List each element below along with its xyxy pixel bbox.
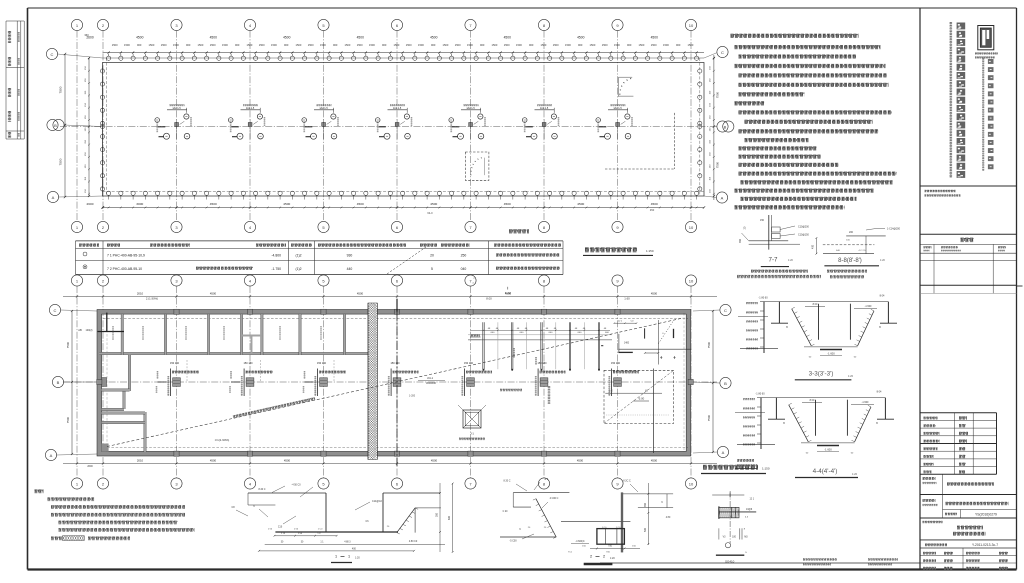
svg-text:-5.00: -5.00 [638, 397, 645, 401]
svg-text:8 20 C: 8 20 C [258, 488, 265, 491]
svg-text:2: 2 [603, 555, 605, 559]
svg-text:4500: 4500 [651, 459, 658, 463]
svg-text:900: 900 [627, 43, 632, 47]
svg-text:1A2 1-5: 1A2 1-5 [540, 107, 549, 110]
svg-text:900: 900 [431, 43, 436, 47]
detail column elevation SG410 [712, 491, 756, 563]
svg-text:1500: 1500 [173, 43, 179, 47]
svg-text:4500: 4500 [577, 202, 584, 206]
svg-text:1500: 1500 [149, 43, 155, 47]
svg-text:C 20: C 20 [503, 511, 509, 513]
svg-text:1A2 1-5: 1A2 1-5 [319, 107, 328, 110]
svg-text:2010: 2010 [137, 292, 144, 296]
svg-text:B: B [54, 123, 57, 128]
svg-text:B: B [57, 380, 60, 385]
svg-text:1500: 1500 [345, 43, 351, 47]
svg-text:1500: 1500 [492, 43, 498, 47]
svg-text:1:150: 1:150 [646, 249, 654, 253]
svg-text:1:20: 1:20 [852, 472, 858, 476]
svg-text:1500: 1500 [247, 43, 253, 47]
svg-text:1A2 1-5: 1A2 1-5 [172, 107, 181, 110]
upper plan pile circles along left edge [100, 66, 702, 191]
lower plan bottom dimension row [63, 459, 717, 468]
svg-text:4 80 C0: 4 80 C0 [409, 540, 418, 543]
svg-text:3-3(3'-3'): 3-3(3'-3') [809, 371, 834, 378]
svg-text:4500: 4500 [651, 36, 659, 40]
pile table diagonal strike line [387, 247, 426, 274]
svg-text:4500: 4500 [284, 459, 291, 463]
lower plan grid column circles bottom row [71, 478, 696, 489]
lower plan row circles left [45, 304, 97, 460]
svg-text:7 1 PHC-400-AB-95-10,9: 7 1 PHC-400-AB-95-10,9 [107, 254, 145, 258]
svg-text:900: 900 [480, 43, 485, 47]
upper plan vertical grid axis lines [77, 31, 691, 222]
svg-text:-1 80 60: -1 80 60 [758, 296, 768, 299]
svg-text:12 1: 12 1 [750, 499, 755, 501]
lower plan row circles right [693, 304, 731, 457]
svg-text:4-4(4'-4'): 4-4(4'-4') [813, 468, 838, 475]
detail title 3-3 [795, 371, 854, 380]
svg-text:B: B [724, 124, 727, 129]
detail section 2-2 [500, 478, 673, 564]
pile cap cluster at axis 3 [155, 105, 191, 139]
svg-text:-5 C00: -5 C00 [509, 540, 517, 543]
lower plan vertical grid axis lines [77, 286, 691, 478]
pile cap cluster at axis 7 [449, 105, 485, 139]
upper plan top dimension text row small [112, 43, 694, 47]
lower plan drainage slope diagonal line [107, 296, 683, 446]
title block review (hui qian) table [920, 239, 1017, 294]
svg-text:-4 600(C: -4 600(C [575, 540, 585, 543]
svg-text:4500: 4500 [357, 292, 364, 296]
svg-text:900: 900 [676, 43, 681, 47]
lower plan interior pile dashed lines [103, 313, 688, 452]
upper plan right dimension chain [710, 55, 720, 200]
svg-text:900: 900 [529, 43, 534, 47]
svg-text:B: B [724, 381, 727, 386]
title block project name row [920, 495, 1017, 519]
svg-text:-4 50 C0: -4 50 C0 [291, 484, 301, 487]
svg-text:4500: 4500 [651, 202, 658, 206]
svg-text:900: 900 [382, 43, 387, 47]
svg-text:1500: 1500 [320, 43, 326, 47]
svg-text:8 2C C: 8 2C C [623, 480, 631, 483]
svg-text:1500: 1500 [112, 43, 118, 47]
svg-text:150: 150 [760, 219, 765, 222]
svg-text:2010: 2010 [137, 459, 144, 463]
svg-text:7-7: 7-7 [769, 257, 779, 264]
lower plan right dimension chain [707, 310, 714, 453]
svg-text:1500: 1500 [639, 43, 645, 47]
svg-text:400: 400 [352, 548, 357, 551]
title block number and date rows [920, 543, 1017, 570]
svg-text:-1 80 60: -1 80 60 [755, 392, 765, 395]
svg-text:JCL1: JCL1 [427, 376, 434, 380]
svg-text:7500: 7500 [707, 341, 711, 348]
svg-text:150 150: 150 150 [390, 362, 400, 365]
lower plan middle horizontal axis [63, 381, 717, 383]
upper plan grid column circles top row [71, 19, 696, 30]
svg-text:900: 900 [284, 43, 289, 47]
title block secondary company column [983, 58, 993, 171]
svg-text:1-200: 1-200 [409, 395, 416, 398]
svg-text:1500: 1500 [651, 43, 657, 47]
svg-text:250: 250 [461, 254, 467, 258]
svg-text:1 X: 1 X [317, 533, 321, 535]
svg-text:-1 600: -1 600 [827, 352, 835, 356]
svg-text:440: 440 [347, 267, 353, 271]
svg-text:20: 20 [430, 254, 434, 258]
detail title 4-4 [795, 468, 858, 478]
svg-text:100(2): 100(2) [86, 329, 93, 332]
pile schedule table [76, 241, 564, 275]
svg-text:C: C [54, 308, 57, 313]
upper plan pile circles along right edge [698, 69, 702, 191]
svg-text:7500: 7500 [59, 158, 63, 165]
upper plan dashed region boundary right end [605, 113, 675, 169]
svg-text:4500: 4500 [283, 36, 291, 40]
svg-text:7500: 7500 [66, 416, 70, 423]
svg-text:C10@200: C10@200 [798, 226, 809, 229]
svg-text:040: 040 [461, 267, 467, 271]
title block company name vertical text (Shanghai Xiandai Architectural Design Group) [951, 22, 965, 178]
svg-text:1500: 1500 [455, 43, 461, 47]
svg-text:8 00: 8 00 [813, 303, 818, 306]
svg-text:4500: 4500 [357, 202, 364, 206]
svg-text:C10@150: C10@150 [798, 234, 809, 237]
lower plan elevator pit dashed outline [604, 369, 674, 454]
svg-text:4500: 4500 [136, 36, 144, 40]
svg-text:8-8(8'-8'): 8-8(8'-8') [838, 258, 862, 264]
detail section 8-8 [812, 228, 901, 277]
svg-text:J-1: J-1 [470, 432, 474, 436]
svg-text:7500: 7500 [707, 414, 711, 421]
svg-text:4500: 4500 [210, 459, 217, 463]
svg-text:1500: 1500 [369, 43, 375, 47]
svg-text:C: C [721, 50, 724, 55]
lower plan right half ceiling beams group [468, 322, 612, 371]
upper plan pile circles along top edge [107, 54, 699, 61]
svg-text:A: A [50, 453, 53, 458]
svg-text:C14@C2: C14@C2 [372, 500, 383, 503]
upper plan row grid circles left [46, 48, 64, 202]
svg-text:1500: 1500 [296, 43, 302, 47]
svg-text:1: 1 [335, 555, 337, 559]
svg-text:10: 10 [689, 481, 694, 486]
svg-text:300x600: 300x600 [426, 381, 437, 385]
svg-text:1500: 1500 [308, 43, 314, 47]
svg-text:1 C0: 1 C0 [616, 527, 621, 529]
title block certificate line [920, 186, 1017, 234]
svg-text:3000: 3000 [136, 202, 143, 206]
upper plan top dimension line with ticks [103, 52, 705, 54]
svg-text:2600: 2600 [87, 202, 94, 206]
svg-text:YS(2016)0279: YS(2016)0279 [975, 513, 997, 517]
svg-text:i=1(1.90%): i=1(1.90%) [215, 438, 230, 442]
upper plan left dimension chain [59, 53, 91, 198]
svg-text:1500: 1500 [504, 43, 510, 47]
svg-text:Y-2011-0213-3c-7: Y-2011-0213-3c-7 [972, 543, 998, 547]
svg-text:1500: 1500 [406, 43, 412, 47]
title block frame [919, 8, 921, 570]
svg-text:4500: 4500 [504, 202, 511, 206]
svg-text:4 C 2.5: 4 C 2.5 [858, 250, 866, 252]
sheet fold mark tick [1017, 285, 1023, 287]
svg-text:7500: 7500 [59, 86, 63, 93]
svg-text:4500: 4500 [431, 459, 438, 463]
svg-text:4 C00 C: 4 C00 C [550, 497, 559, 500]
pile cap cluster at axis 4 [228, 105, 264, 139]
lower plan mid-axis beam dimension labels [157, 360, 640, 396]
svg-text:8 04: 8 04 [880, 295, 885, 298]
svg-text:1500: 1500 [553, 43, 559, 47]
svg-text:4500: 4500 [577, 459, 584, 463]
upper plan pile circles along bottom edge [107, 191, 699, 195]
svg-text:1500: 1500 [259, 43, 265, 47]
svg-text:350: 350 [436, 512, 439, 517]
lower plan sump pit square with cross [458, 405, 486, 439]
upper plan bottom dimension line [87, 196, 706, 215]
svg-text:C: C [51, 52, 54, 57]
detail section 7-7 [737, 215, 821, 277]
svg-text:1:20: 1:20 [355, 557, 360, 560]
svg-text:7500: 7500 [716, 91, 720, 98]
detail section 1-1 [231, 483, 453, 563]
svg-text:1 C0: 1 C0 [602, 527, 607, 529]
svg-text:450: 450 [650, 208, 655, 212]
svg-text:-4 5: -4 5 [544, 478, 549, 481]
title block drawing title row [920, 521, 1017, 540]
svg-text:400: 400 [812, 244, 815, 249]
svg-text:(1)2: (1)2 [295, 254, 301, 258]
svg-text:1500: 1500 [590, 43, 596, 47]
svg-text:1: 1 [348, 555, 350, 559]
svg-text:2: 2 [590, 555, 592, 559]
upper plan dashed zone box with hook symbol [465, 152, 489, 180]
lower plan drawing title (basement slab plan) [701, 466, 770, 474]
lower plan ramp beam and dimension marks near axis 9 [614, 320, 692, 365]
svg-text:1500: 1500 [443, 43, 449, 47]
svg-text:4500: 4500 [504, 36, 512, 40]
svg-text:1:150: 1:150 [762, 467, 770, 471]
svg-text:AB: AB [78, 328, 82, 332]
svg-text:700: 700 [608, 545, 613, 548]
svg-text:8.00: 8.00 [486, 296, 492, 300]
svg-text:4500: 4500 [210, 202, 217, 206]
left edge signature strip table [6, 21, 24, 139]
svg-text:350: 350 [644, 502, 647, 507]
svg-text:2600: 2600 [87, 465, 93, 468]
footer separator line and stamps [600, 559, 920, 565]
svg-text:1-C14@200: 1-C14@200 [887, 228, 901, 231]
svg-text:10: 10 [689, 225, 694, 230]
svg-text:C10: C10 [278, 527, 283, 529]
svg-text:(1)2: (1)2 [295, 267, 301, 271]
svg-text:350: 350 [739, 238, 742, 243]
note text below pile table [472, 278, 511, 295]
svg-text:150 150: 150 150 [611, 362, 621, 365]
svg-text:4500: 4500 [430, 36, 438, 40]
svg-text:900: 900 [333, 43, 338, 47]
svg-text:900: 900 [578, 43, 583, 47]
svg-text:A: A [52, 195, 55, 200]
lower plan left column rooms [102, 355, 147, 452]
svg-text:1500: 1500 [222, 43, 228, 47]
svg-text:1500: 1500 [124, 43, 130, 47]
lower plan grid column circles top row [71, 275, 696, 286]
svg-text:4500: 4500 [577, 36, 585, 40]
svg-text:7500: 7500 [716, 161, 720, 168]
svg-text:150 150: 150 150 [317, 362, 327, 365]
svg-text:4500: 4500 [283, 202, 290, 206]
svg-text:1500: 1500 [602, 43, 608, 47]
svg-text:1500: 1500 [541, 43, 547, 47]
svg-text:4500: 4500 [651, 292, 658, 296]
detail section 3-3 pit section [738, 295, 897, 359]
svg-text:150 150: 150 150 [243, 362, 253, 365]
title block client row [920, 474, 1017, 494]
upper plan corner radius detail symbol [618, 77, 634, 97]
svg-text:8 20 C: 8 20 C [503, 480, 510, 483]
svg-text:4500: 4500 [210, 292, 217, 296]
svg-text:7 2 PHC-400-AB-95-10: 7 2 PHC-400-AB-95-10 [107, 267, 142, 271]
small note left of 4-4 title [735, 460, 757, 469]
lower plan post-cast strip hatched band [368, 298, 377, 463]
pile schedule table title [509, 230, 529, 231]
lower plan columns at grid intersections [97, 309, 694, 456]
svg-text:4500: 4500 [357, 36, 365, 40]
svg-text:1:20: 1:20 [788, 259, 793, 262]
svg-text:1500: 1500 [210, 43, 216, 47]
svg-text:-1 600: -1 600 [824, 448, 832, 452]
svg-text:8 00: 8 00 [810, 399, 815, 402]
svg-text:1500: 1500 [663, 43, 669, 47]
svg-text:360: 360 [84, 33, 89, 37]
svg-text:500: 500 [644, 527, 647, 532]
svg-text:1A2 1-5: 1A2 1-5 [393, 107, 402, 110]
svg-text:-4.800: -4.800 [271, 254, 281, 258]
svg-text:150 150: 150 150 [464, 362, 474, 365]
svg-text:1A2 1-5: 1A2 1-5 [246, 107, 255, 110]
svg-text:10: 10 [689, 23, 694, 28]
svg-text:8 04: 8 04 [877, 391, 882, 394]
svg-text:900: 900 [235, 43, 240, 47]
svg-text:-1 600: -1 600 [862, 401, 869, 404]
upper plan horizontal axis lines [58, 53, 717, 198]
svg-text:1500: 1500 [271, 43, 277, 47]
pile cap cluster at axis 6 [375, 105, 411, 139]
svg-text:1:20: 1:20 [848, 374, 854, 378]
general notes text block [731, 35, 897, 208]
svg-text:1500: 1500 [516, 43, 522, 47]
detail section 4-4 pit section [735, 391, 894, 455]
svg-text:C: C [724, 308, 727, 313]
svg-text:5: 5 [431, 267, 433, 271]
svg-text:A: A [721, 195, 724, 200]
svg-text:7500: 7500 [66, 341, 70, 348]
pile cap cluster at axis 8 [522, 105, 558, 139]
svg-text:800: 800 [448, 515, 451, 520]
upper plan grid column circles bottom row [71, 221, 696, 232]
svg-text:-1.750: -1.750 [271, 267, 281, 271]
svg-text:1400: 1400 [624, 342, 630, 344]
svg-text:1A2 1-5: 1A2 1-5 [613, 107, 622, 110]
svg-text:1A2 1-5: 1A2 1-5 [466, 107, 475, 110]
svg-text:64-0: 64-0 [427, 211, 433, 215]
svg-text:1:20: 1:20 [610, 557, 615, 560]
svg-text:1:20: 1:20 [880, 259, 885, 262]
svg-text:4500: 4500 [505, 292, 512, 296]
pile cap cluster at axis 9 [596, 105, 632, 139]
title block personnel table [920, 413, 997, 475]
svg-text:1.60: 1.60 [624, 296, 630, 300]
lower plan top band room partition walls [98, 313, 369, 355]
svg-text:4500: 4500 [210, 36, 218, 40]
svg-text:4500: 4500 [430, 202, 437, 206]
svg-text:13@6: 13@6 [746, 509, 753, 511]
lower plan misc leader texts right half [409, 376, 549, 404]
lower plan left dimension chain [66, 310, 93, 455]
svg-text:900: 900 [186, 43, 191, 47]
svg-text:4 80: 4 80 [666, 517, 671, 519]
lower plan top dimension row [63, 292, 717, 298]
svg-text:1500: 1500 [467, 43, 473, 47]
svg-text:10: 10 [689, 278, 694, 283]
svg-text:1 C0: 1 C0 [318, 529, 323, 531]
upper plan building outline [103, 58, 705, 196]
vent note underlined text [470, 335, 481, 340]
svg-text:900: 900 [137, 43, 142, 47]
bottom left notes block [35, 490, 195, 540]
svg-text:-1 600: -1 600 [865, 305, 872, 308]
svg-text:1500: 1500 [394, 43, 400, 47]
svg-text:1500: 1500 [418, 43, 424, 47]
svg-text:1500: 1500 [161, 43, 167, 47]
svg-text:1500: 1500 [688, 43, 694, 47]
upper plan drawing title (pile layout plan) [583, 248, 654, 255]
lower plan exterior walls [97, 310, 691, 457]
svg-text:1500: 1500 [357, 43, 363, 47]
section cut line through axis 6 [396, 299, 398, 466]
svg-text:2.(1.90%): 2.(1.90%) [146, 296, 158, 300]
svg-text:4 80 3: 4 80 3 [344, 541, 351, 543]
title block company logo [975, 26, 998, 58]
svg-text:150 150: 150 150 [170, 362, 180, 365]
svg-text:1500: 1500 [614, 43, 620, 47]
svg-text:1500: 1500 [565, 43, 571, 47]
svg-text:200: 200 [849, 231, 854, 234]
svg-text:930: 930 [347, 254, 353, 258]
pile cap cluster at axis 5 [302, 105, 338, 139]
svg-text:1500: 1500 [198, 43, 204, 47]
svg-text:A: A [722, 450, 725, 455]
upper plan row grid circles right [716, 46, 734, 203]
upper plan top dimension text row large spans [84, 33, 658, 40]
